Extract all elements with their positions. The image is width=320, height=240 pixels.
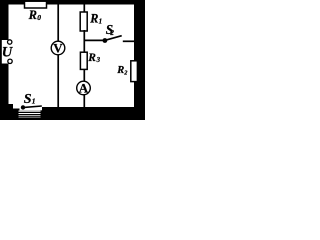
svg-text:0: 0 [37,13,41,22]
battery pack (striped box in bottom bus) [19,111,43,118]
svg-text:R: R [89,11,98,25]
svg-text:1: 1 [32,97,36,106]
node: S1 fixed contact dot [21,105,25,109]
label S2 [106,22,115,37]
svg-text:R: R [116,65,124,76]
switch S1 blade (closed-ish on bottom bus) [24,106,42,107]
svg-text:2: 2 [109,29,114,37]
wire: top bus (merged with frame top) [0,0,145,5]
wire: middle branch between R3 and ammeter [83,69,85,82]
wire: ammeter to bottom bus [83,94,85,108]
label R1 [89,11,102,25]
wire: voltmeter branch lower [57,55,59,110]
terminal node: lower source terminal [8,59,12,63]
svg-text:R: R [28,8,37,22]
svg-text:3: 3 [96,57,101,64]
switch S2 blade (open) [106,36,122,41]
label R3 [87,52,100,64]
svg-text:S: S [24,92,32,107]
svg-text:V: V [53,40,63,55]
wire: left bus foot joining bottom bus [0,104,13,112]
resistor R0 (box on top bus) [25,1,47,8]
svg-text:R: R [87,52,96,64]
wire: voltmeter branch upper [57,3,59,42]
label R0 [28,8,42,22]
voltmeter V [51,40,65,55]
wire: bottom bus under battery pack [19,110,43,120]
wire: S2 right lead to right bus [123,40,135,42]
label S1 [24,92,36,107]
resistor R2 (vertical box at right bus) [131,61,138,82]
wire: middle branch from top bus to R1 [83,3,85,13]
svg-text:A: A [79,80,89,95]
svg-text:U: U [2,44,14,60]
wire: left frame edge beside source U [0,40,2,64]
wire: left bus lower segment (source lead) [0,64,9,111]
label R2 [116,65,127,76]
resistor R1 (vertical box) [80,12,87,31]
wire: right bus (thick black bar, right side) [134,0,145,120]
ammeter A [77,80,91,95]
node: S2 fixed contact dot [103,38,108,43]
wire: left bus upper segment (source lead) [0,0,9,40]
terminal node: upper source terminal [8,40,12,44]
wire: middle branch between R1 and R3 [83,30,85,53]
wire: branch to switch S2 (horizontal) [84,39,105,41]
resistor R3 (vertical box) [80,52,87,69]
svg-text:1: 1 [99,18,103,26]
svg-text:2: 2 [123,69,127,76]
wire: bottom bus left segment [0,109,20,121]
wire: bottom bus right segment [42,107,135,120]
